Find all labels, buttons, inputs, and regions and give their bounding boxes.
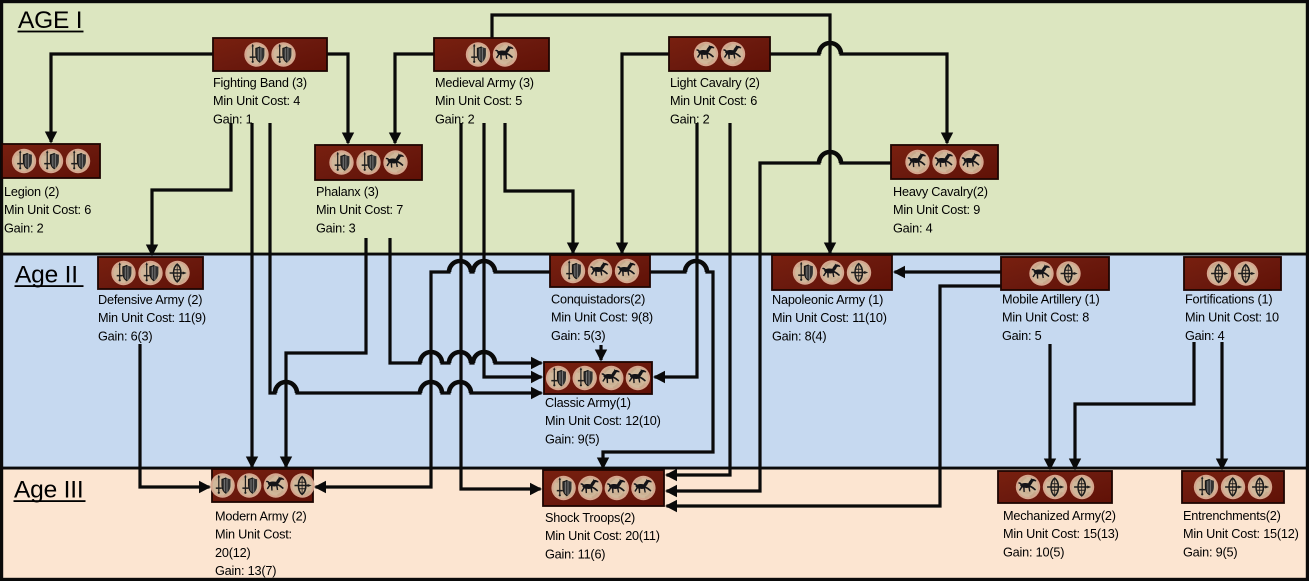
svg-text:Gain: 10(5): Gain: 10(5) (1003, 545, 1064, 559)
label Legion (4, 185, 91, 235)
svg-text:Min Unit Cost: 15(12): Min Unit Cost: 15(12) (1183, 527, 1299, 541)
wire Light Cavalry to Shock Troops (667, 123, 731, 475)
wire Phalanx to Modern Army (286, 238, 366, 467)
label Defensive Army (98, 293, 206, 343)
svg-text:Gain: 11(6): Gain: 11(6) (545, 547, 605, 561)
svg-text:Fortifications (1): Fortifications (1) (1185, 293, 1272, 307)
wire crossing hops (bold arcs) (275, 43, 841, 393)
wire Medieval Army to Napoleonic Army (492, 15, 830, 253)
svg-text:Gain: 2: Gain: 2 (4, 221, 44, 235)
svg-text:Gain: 4: Gain: 4 (1185, 329, 1225, 343)
svg-text:Phalanx (3): Phalanx (3) (316, 185, 379, 199)
svg-text:Gain: 4: Gain: 4 (893, 221, 933, 235)
svg-text:Min Unit Cost: 10: Min Unit Cost: 10 (1185, 311, 1279, 325)
wire Conquistadors to Shock Troops (603, 261, 713, 468)
svg-text:Napoleonic Army (1): Napoleonic Army (1) (772, 293, 883, 307)
wire Fighting Band to Legion (51, 54, 213, 142)
svg-text:Heavy Cavalry(2): Heavy Cavalry(2) (893, 185, 988, 199)
label Medieval Army (435, 76, 534, 126)
label Modern Army (215, 510, 306, 579)
wire Conquistadors to Modern Army (316, 261, 551, 487)
band Age II (blue) (0, 254, 1309, 468)
wire Light Cavalry to Heavy Cavalry (770, 43, 947, 143)
svg-text:Min Unit Cost: 7: Min Unit Cost: 7 (316, 203, 403, 217)
svg-text:Legion (2): Legion (2) (4, 185, 59, 199)
svg-text:Gain: 5(3): Gain: 5(3) (551, 329, 605, 343)
wire Medieval Army to Shock Troops (461, 123, 541, 489)
wire Defensive Army to Modern Army (140, 344, 210, 487)
unit box Light Cavalry (669, 37, 770, 71)
unit box Phalanx (315, 145, 422, 180)
label Mobile Artillery (1002, 293, 1100, 343)
svg-text:Min Unit Cost:: Min Unit Cost: (215, 528, 292, 542)
svg-text:Min Unit Cost: 9(8): Min Unit Cost: 9(8) (551, 311, 653, 325)
wire Fighting Band to Modern Army (250, 123, 253, 467)
wire Medieval Army to Classic Army (484, 123, 542, 377)
wire Fighting Band to Defensive Army (152, 123, 231, 255)
svg-text:Min Unit Cost: 6: Min Unit Cost: 6 (670, 94, 757, 108)
svg-text:Min Unit Cost: 15(13): Min Unit Cost: 15(13) (1003, 527, 1119, 541)
svg-text:Min Unit Cost: 5: Min Unit Cost: 5 (435, 94, 522, 108)
svg-text:Min Unit Cost: 12(10): Min Unit Cost: 12(10) (545, 414, 661, 428)
band Age III (peach) (0, 468, 1309, 581)
svg-text:Defensive Army (2): Defensive Army (2) (98, 293, 202, 307)
label Entrenchments (1183, 509, 1299, 559)
svg-text:Modern Army (2): Modern Army (2) (215, 510, 306, 524)
label Mechanized Army (1003, 509, 1119, 559)
unit box Shock Troops (543, 470, 664, 506)
svg-text:Min Unit Cost: 20(11): Min Unit Cost: 20(11) (545, 529, 660, 543)
svg-text:Min Unit Cost: 8: Min Unit Cost: 8 (1002, 311, 1089, 325)
svg-text:Gain: 13(7): Gain: 13(7) (215, 564, 276, 578)
svg-text:Conquistadors(2): Conquistadors(2) (551, 293, 645, 307)
unit box Mechanized Army (998, 471, 1112, 503)
unit box Napoleonic Army (772, 255, 892, 290)
svg-text:Gain: 8(4): Gain: 8(4) (772, 329, 826, 343)
band divider II/III (0, 467, 1309, 470)
unit box Entrenchments (1182, 471, 1284, 503)
label Shock Troops (545, 511, 660, 561)
label Phalanx (316, 185, 403, 235)
wire Conquistadors to Classic Army (599, 345, 602, 360)
wire Light Cavalry to Classic Army (655, 123, 698, 377)
wire Mobile Artillery to Shock Troops (667, 286, 1002, 506)
svg-text:Gain: 1: Gain: 1 (213, 112, 253, 126)
svg-text:Gain: 9(5): Gain: 9(5) (545, 432, 599, 446)
wire Light Cavalry to Conquistadors (622, 54, 669, 253)
svg-text:Gain: 5: Gain: 5 (1002, 329, 1042, 343)
unit box Fighting Band (213, 38, 327, 71)
wire Fighting Band to Classic Army (270, 123, 542, 393)
wire Fortifications to Mechanized Army (1075, 342, 1194, 469)
label Conquistadors (551, 293, 653, 343)
svg-text:Fighting Band (3): Fighting Band (3) (213, 76, 307, 90)
svg-text:AGE I: AGE I (18, 7, 82, 34)
svg-text:Gain: 3: Gain: 3 (316, 221, 356, 235)
svg-text:Age II: Age II (15, 261, 78, 288)
label Fortifications (1185, 293, 1279, 343)
svg-text:Mobile Artillery (1): Mobile Artillery (1) (1002, 293, 1100, 307)
svg-text:Light Cavalry (2): Light Cavalry (2) (670, 76, 760, 90)
label Light Cavalry (670, 76, 760, 126)
svg-text:Gain: 6(3): Gain: 6(3) (98, 329, 152, 343)
svg-text:Gain: 9(5): Gain: 9(5) (1183, 545, 1237, 559)
unit box Conquistadors (550, 255, 650, 287)
svg-text:Min Unit Cost: 4: Min Unit Cost: 4 (213, 94, 300, 108)
svg-text:Mechanized Army(2): Mechanized Army(2) (1003, 509, 1116, 523)
svg-text:Min Unit Cost: 6: Min Unit Cost: 6 (4, 203, 91, 217)
unit box Mobile Artillery (1001, 257, 1109, 290)
label Fighting Band (213, 76, 307, 126)
unit box Heavy Cavalry (891, 145, 998, 179)
svg-text:20(12): 20(12) (215, 546, 250, 560)
svg-text:Age III: Age III (14, 476, 83, 503)
heading Age II (15, 261, 84, 288)
svg-text:Min Unit Cost: 9: Min Unit Cost: 9 (893, 203, 980, 217)
label Heavy Cavalry (893, 185, 988, 235)
unit box Defensive Army (98, 257, 203, 289)
wire Heavy Cavalry to Shock Troops (667, 152, 892, 491)
unit box Classic Army (544, 362, 652, 394)
heading AGE I (18, 7, 84, 34)
svg-text:Min Unit Cost: 11(9): Min Unit Cost: 11(9) (98, 311, 206, 325)
wire Medieval Army to Conquistadors (505, 123, 573, 253)
svg-text:Gain: 2: Gain: 2 (435, 112, 475, 126)
svg-text:Shock Troops(2): Shock Troops(2) (545, 511, 635, 525)
wire Medieval Army to Phalanx (395, 54, 434, 143)
band divider I/II (0, 253, 1309, 256)
wire Phalanx to Classic Army (390, 238, 542, 363)
wire Fortifications to Entrenchments (1220, 342, 1223, 469)
heading Age III (14, 476, 86, 503)
svg-text:Classic Army(1): Classic Army(1) (545, 396, 631, 410)
svg-text:Gain: 2: Gain: 2 (670, 112, 710, 126)
wire Fighting Band to Phalanx (327, 54, 348, 143)
band AGE I (green) (0, 0, 1309, 254)
label Napoleonic Army (772, 293, 887, 343)
svg-text:Entrenchments(2): Entrenchments(2) (1183, 509, 1281, 523)
svg-text:Min Unit Cost: 11(10): Min Unit Cost: 11(10) (772, 311, 887, 325)
unit box Fortifications (1184, 257, 1281, 290)
label Classic Army (545, 396, 661, 446)
unit box Modern Army (210, 469, 314, 502)
wire Mobile Artillery to Mechanized Army (1048, 344, 1051, 469)
unit box Medieval Army (434, 38, 549, 71)
svg-text:Medieval Army (3): Medieval Army (3) (435, 76, 534, 90)
unit box Legion (2, 144, 100, 178)
wire Mobile Artillery to Napoleonic Army (895, 270, 1002, 273)
